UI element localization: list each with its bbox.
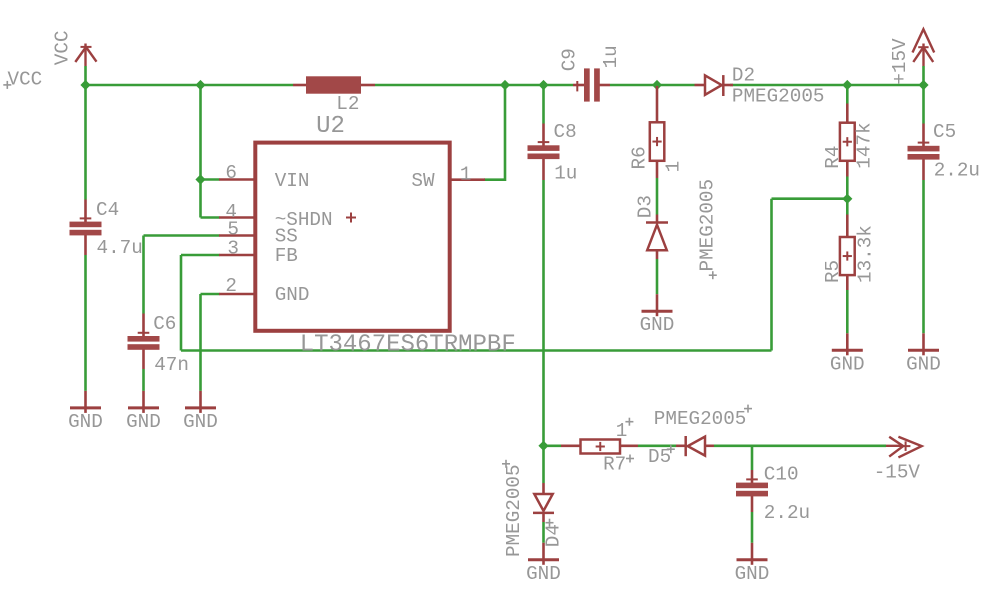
node SW at SW riser bbox=[500, 80, 510, 90]
label C10 bbox=[764, 464, 799, 486]
resistor R7 bbox=[561, 440, 638, 454]
svg-text:1u: 1u bbox=[554, 162, 577, 184]
origin cross of D5 label bbox=[667, 445, 675, 453]
pin name ~SHDN bbox=[275, 209, 333, 231]
node FB at R4/R5 divider bbox=[842, 194, 852, 204]
value 47n bbox=[154, 354, 189, 376]
svg-text:R5: R5 bbox=[822, 260, 844, 283]
inductor L2 bbox=[293, 76, 375, 93]
resistor R6 bbox=[650, 86, 665, 178]
svg-text:C4: C4 bbox=[96, 199, 119, 221]
pin name VIN bbox=[275, 170, 310, 192]
wire FB left vertical bbox=[180, 255, 183, 351]
label R6 (vertical) bbox=[628, 146, 650, 169]
pin number 3 bbox=[227, 237, 239, 259]
svg-text:47n: 47n bbox=[154, 354, 189, 376]
svg-text:2: 2 bbox=[225, 275, 237, 297]
wire D4 to ground bbox=[542, 522, 545, 543]
capacitor C10 bbox=[736, 470, 768, 512]
supply symbol +15V bbox=[913, 29, 935, 66]
label VCC (vertical) bbox=[51, 30, 73, 65]
wire C9 to D2 segment bbox=[610, 84, 695, 87]
svg-text:GND: GND bbox=[735, 563, 770, 585]
svg-text:D2: D2 bbox=[732, 65, 755, 87]
ground C4 bbox=[70, 391, 101, 413]
svg-text:1: 1 bbox=[662, 161, 684, 173]
value PMEG2005 (D5) bbox=[654, 408, 747, 430]
wire pin 2 to ground bbox=[199, 294, 202, 391]
wire SS to C6 bbox=[142, 236, 145, 314]
wire VCC rail left segment bbox=[86, 84, 294, 87]
label C6 bbox=[153, 313, 176, 335]
svg-text:GND: GND bbox=[126, 411, 161, 433]
label D5 bbox=[648, 446, 671, 468]
svg-text:2.2u: 2.2u bbox=[764, 502, 810, 524]
svg-text:VCC: VCC bbox=[51, 30, 73, 65]
U2 pin 6 stub bbox=[219, 178, 256, 181]
wire C8 down to bottom node bbox=[542, 180, 545, 483]
value 4.7u bbox=[97, 237, 143, 259]
svg-text:C10: C10 bbox=[764, 464, 799, 486]
pin name FB bbox=[275, 245, 298, 267]
wire to C10 bbox=[751, 446, 754, 470]
svg-text:3: 3 bbox=[227, 237, 239, 259]
wire VCC symbol drop bbox=[84, 66, 87, 85]
capacitor C8 bbox=[528, 124, 560, 181]
label R5 (vertical) bbox=[822, 260, 844, 283]
origin cross of R7 label bbox=[626, 455, 634, 463]
label +15V (vertical) bbox=[889, 38, 911, 85]
pin number 2 bbox=[225, 275, 237, 297]
wire +15V rail segment bbox=[730, 84, 924, 87]
U2 pin 1 stub (SW) bbox=[449, 178, 486, 181]
resistor R5 bbox=[840, 215, 855, 291]
supply symbol VCC bbox=[75, 44, 96, 67]
wire VCC vertical to U2 VIN/SHDN bbox=[199, 85, 202, 218]
label U2 bbox=[316, 113, 345, 140]
svg-text:R7: R7 bbox=[603, 454, 626, 476]
value PMEG2005 of D4 (vertical) bbox=[503, 464, 525, 557]
wire to pin 2 GND bbox=[201, 293, 220, 296]
node +15V at R4 tap bbox=[842, 80, 852, 90]
svg-text:VCC: VCC bbox=[8, 69, 43, 91]
svg-text:-15V: -15V bbox=[874, 461, 921, 483]
GND label C5 bbox=[906, 353, 941, 375]
svg-text:D3: D3 bbox=[635, 195, 657, 218]
node -15V bottom at D4 tap bbox=[538, 441, 548, 451]
wire FB long horizontal bbox=[181, 349, 772, 352]
value label LT3467ES6TRMPBF bbox=[300, 332, 516, 359]
value 1 of R7 bbox=[616, 420, 628, 442]
svg-text:U2: U2 bbox=[316, 113, 345, 140]
svg-text:R6: R6 bbox=[628, 146, 650, 169]
GND label C4 bbox=[68, 411, 103, 433]
capacitor C5 bbox=[908, 124, 940, 181]
capacitor C4 bbox=[70, 200, 102, 256]
ground U2 pin 2 bbox=[185, 391, 216, 413]
capacitor C6 bbox=[128, 314, 160, 370]
svg-text:PMEG2005: PMEG2005 bbox=[697, 179, 719, 272]
origin cross of net label VCC bbox=[3, 81, 11, 89]
wire VCC to C4 bbox=[84, 85, 87, 200]
diode D3 bbox=[646, 215, 668, 260]
svg-text:PMEG2005: PMEG2005 bbox=[732, 86, 825, 108]
svg-text:147k: 147k bbox=[854, 122, 876, 168]
wire to pin 6 VIN bbox=[201, 178, 220, 181]
wire bottom node to R7 bbox=[544, 444, 562, 447]
label C8 bbox=[554, 121, 577, 143]
wire D3 to ground bbox=[656, 259, 659, 294]
label C4 bbox=[96, 199, 119, 221]
pin number 5 bbox=[227, 219, 239, 241]
svg-text:GND: GND bbox=[275, 284, 310, 306]
svg-text:GND: GND bbox=[183, 411, 218, 433]
label R4 (vertical) bbox=[822, 146, 844, 169]
value PMEG2005 (D2) bbox=[732, 86, 825, 108]
pin number 4 bbox=[225, 201, 237, 223]
wire FB vertical bbox=[770, 199, 773, 351]
ground D3 bbox=[642, 294, 673, 316]
value 1 of R6 (vertical) bbox=[662, 161, 684, 173]
pin number 6 bbox=[225, 162, 237, 184]
ground C6 bbox=[128, 391, 159, 413]
value 1u of C9 (vertical) bbox=[600, 45, 622, 68]
label L2 bbox=[336, 93, 359, 115]
svg-text:PMEG2005: PMEG2005 bbox=[654, 408, 747, 430]
wire R7 to D5 bbox=[638, 444, 676, 447]
svg-text:D4: D4 bbox=[542, 524, 564, 547]
svg-text:1: 1 bbox=[460, 163, 472, 185]
svg-text:4.7u: 4.7u bbox=[97, 237, 143, 259]
svg-text:GND: GND bbox=[526, 563, 561, 585]
svg-text:FB: FB bbox=[275, 245, 298, 267]
wire C4 to ground bbox=[84, 255, 87, 391]
svg-text:13.3k: 13.3k bbox=[855, 225, 877, 283]
value 2.2u (C10) bbox=[764, 502, 810, 524]
ground C10 bbox=[737, 543, 768, 565]
svg-text:PMEG2005: PMEG2005 bbox=[503, 464, 525, 557]
svg-text:R4: R4 bbox=[822, 146, 844, 169]
wire R5 to ground bbox=[846, 290, 849, 333]
svg-text:C8: C8 bbox=[554, 121, 577, 143]
svg-text:C9: C9 bbox=[559, 48, 581, 71]
svg-text:GND: GND bbox=[640, 314, 675, 336]
wire +15V symbol drop bbox=[922, 66, 925, 85]
label -15V bbox=[874, 461, 921, 483]
origin cross of R7 value bbox=[625, 418, 633, 426]
node VCC at C4 tap bbox=[80, 80, 90, 90]
GND label C6 bbox=[126, 411, 161, 433]
wire SW pin up to rail bbox=[484, 85, 505, 180]
label D4 (vertical) bbox=[542, 524, 564, 547]
wire to pin 4 SHDN bbox=[201, 216, 220, 219]
value 2.2u (C5) bbox=[934, 160, 980, 182]
label C5 bbox=[933, 121, 956, 143]
op-amp U2 body (LT3467) bbox=[255, 143, 449, 331]
svg-text:GND: GND bbox=[68, 411, 103, 433]
wire R6 to D3 bbox=[656, 178, 659, 215]
diode D5 bbox=[676, 436, 714, 456]
pin name SS bbox=[275, 225, 298, 247]
wire R4 to R5 bbox=[846, 177, 849, 215]
wire rail to R4 bbox=[846, 85, 849, 104]
wire D5 to -15V bbox=[714, 444, 886, 447]
ground C5 bbox=[908, 333, 939, 355]
wire C10 to ground bbox=[751, 512, 754, 543]
wire C6 to ground bbox=[142, 369, 145, 391]
pin name GND bbox=[275, 284, 310, 306]
pin number 1 bbox=[460, 163, 472, 185]
wire to pin 3 FB bbox=[181, 254, 220, 257]
ground R5 bbox=[832, 333, 863, 355]
wire SW rail segment L2 to C9 bbox=[375, 84, 573, 87]
svg-text:C6: C6 bbox=[153, 313, 176, 335]
value PMEG2005 of D3 (vertical) bbox=[697, 179, 719, 272]
U2 pin 4 stub bbox=[219, 216, 256, 219]
label C9 (vertical) bbox=[559, 48, 581, 71]
label R7 bbox=[603, 454, 626, 476]
svg-text:2.2u: 2.2u bbox=[934, 160, 980, 182]
origin cross of D4 value bbox=[502, 460, 510, 468]
node anode at R6 tap bbox=[652, 80, 662, 90]
node VIN pin junction bbox=[195, 174, 205, 184]
GND label C10 bbox=[735, 563, 770, 585]
U2 pin 5 stub bbox=[219, 234, 256, 237]
value 147k (vertical) bbox=[854, 122, 876, 168]
svg-text:C5: C5 bbox=[933, 121, 956, 143]
node SW at C8 tap bbox=[538, 80, 548, 90]
GND label U2 pin 2 bbox=[183, 411, 218, 433]
GND label R5 bbox=[830, 353, 865, 375]
value 1u (C8) bbox=[554, 162, 577, 184]
svg-text:1: 1 bbox=[616, 420, 628, 442]
svg-text:SW: SW bbox=[411, 170, 435, 192]
svg-text:GND: GND bbox=[830, 353, 865, 375]
svg-text:VIN: VIN bbox=[275, 170, 310, 192]
wire C5 to ground bbox=[922, 180, 925, 333]
value 13.3k (vertical) bbox=[855, 225, 877, 283]
svg-text:6: 6 bbox=[225, 162, 237, 184]
svg-text:GND: GND bbox=[906, 353, 941, 375]
diode D4 bbox=[533, 483, 554, 522]
U2 pin 3 stub bbox=[219, 254, 256, 257]
ground D4 bbox=[528, 543, 559, 565]
supply symbol -15V bbox=[886, 437, 922, 458]
capacitor C9 bbox=[573, 68, 610, 101]
origin cross of D3 value bbox=[709, 271, 717, 279]
wire rail to C8 bbox=[542, 85, 545, 124]
origin cross of D5 value bbox=[744, 405, 752, 413]
svg-text:1u: 1u bbox=[600, 45, 622, 68]
pin name SW bbox=[411, 170, 435, 192]
label D2 bbox=[732, 65, 755, 87]
U2 pin 2 stub bbox=[219, 293, 256, 296]
resistor R4 bbox=[840, 104, 855, 177]
label D3 (vertical) bbox=[635, 195, 657, 218]
origin cross of D4 label bbox=[546, 519, 554, 527]
net label VCC bbox=[8, 69, 43, 91]
svg-text:+15V: +15V bbox=[889, 38, 911, 85]
diode D2 bbox=[695, 75, 734, 96]
node VCC at VIN drop bbox=[195, 80, 205, 90]
wire rail to C5 bbox=[922, 85, 925, 124]
svg-text:LT3467ES6TRMPBF: LT3467ES6TRMPBF bbox=[300, 332, 516, 359]
wire to pin 5 SS bbox=[144, 234, 220, 237]
GND label D3 bbox=[640, 314, 675, 336]
wire FB node to R4/R5 tap bbox=[772, 197, 848, 200]
svg-text:L2: L2 bbox=[336, 93, 359, 115]
GND label D4 bbox=[526, 563, 561, 585]
node +15V at C5 tap bbox=[918, 80, 928, 90]
